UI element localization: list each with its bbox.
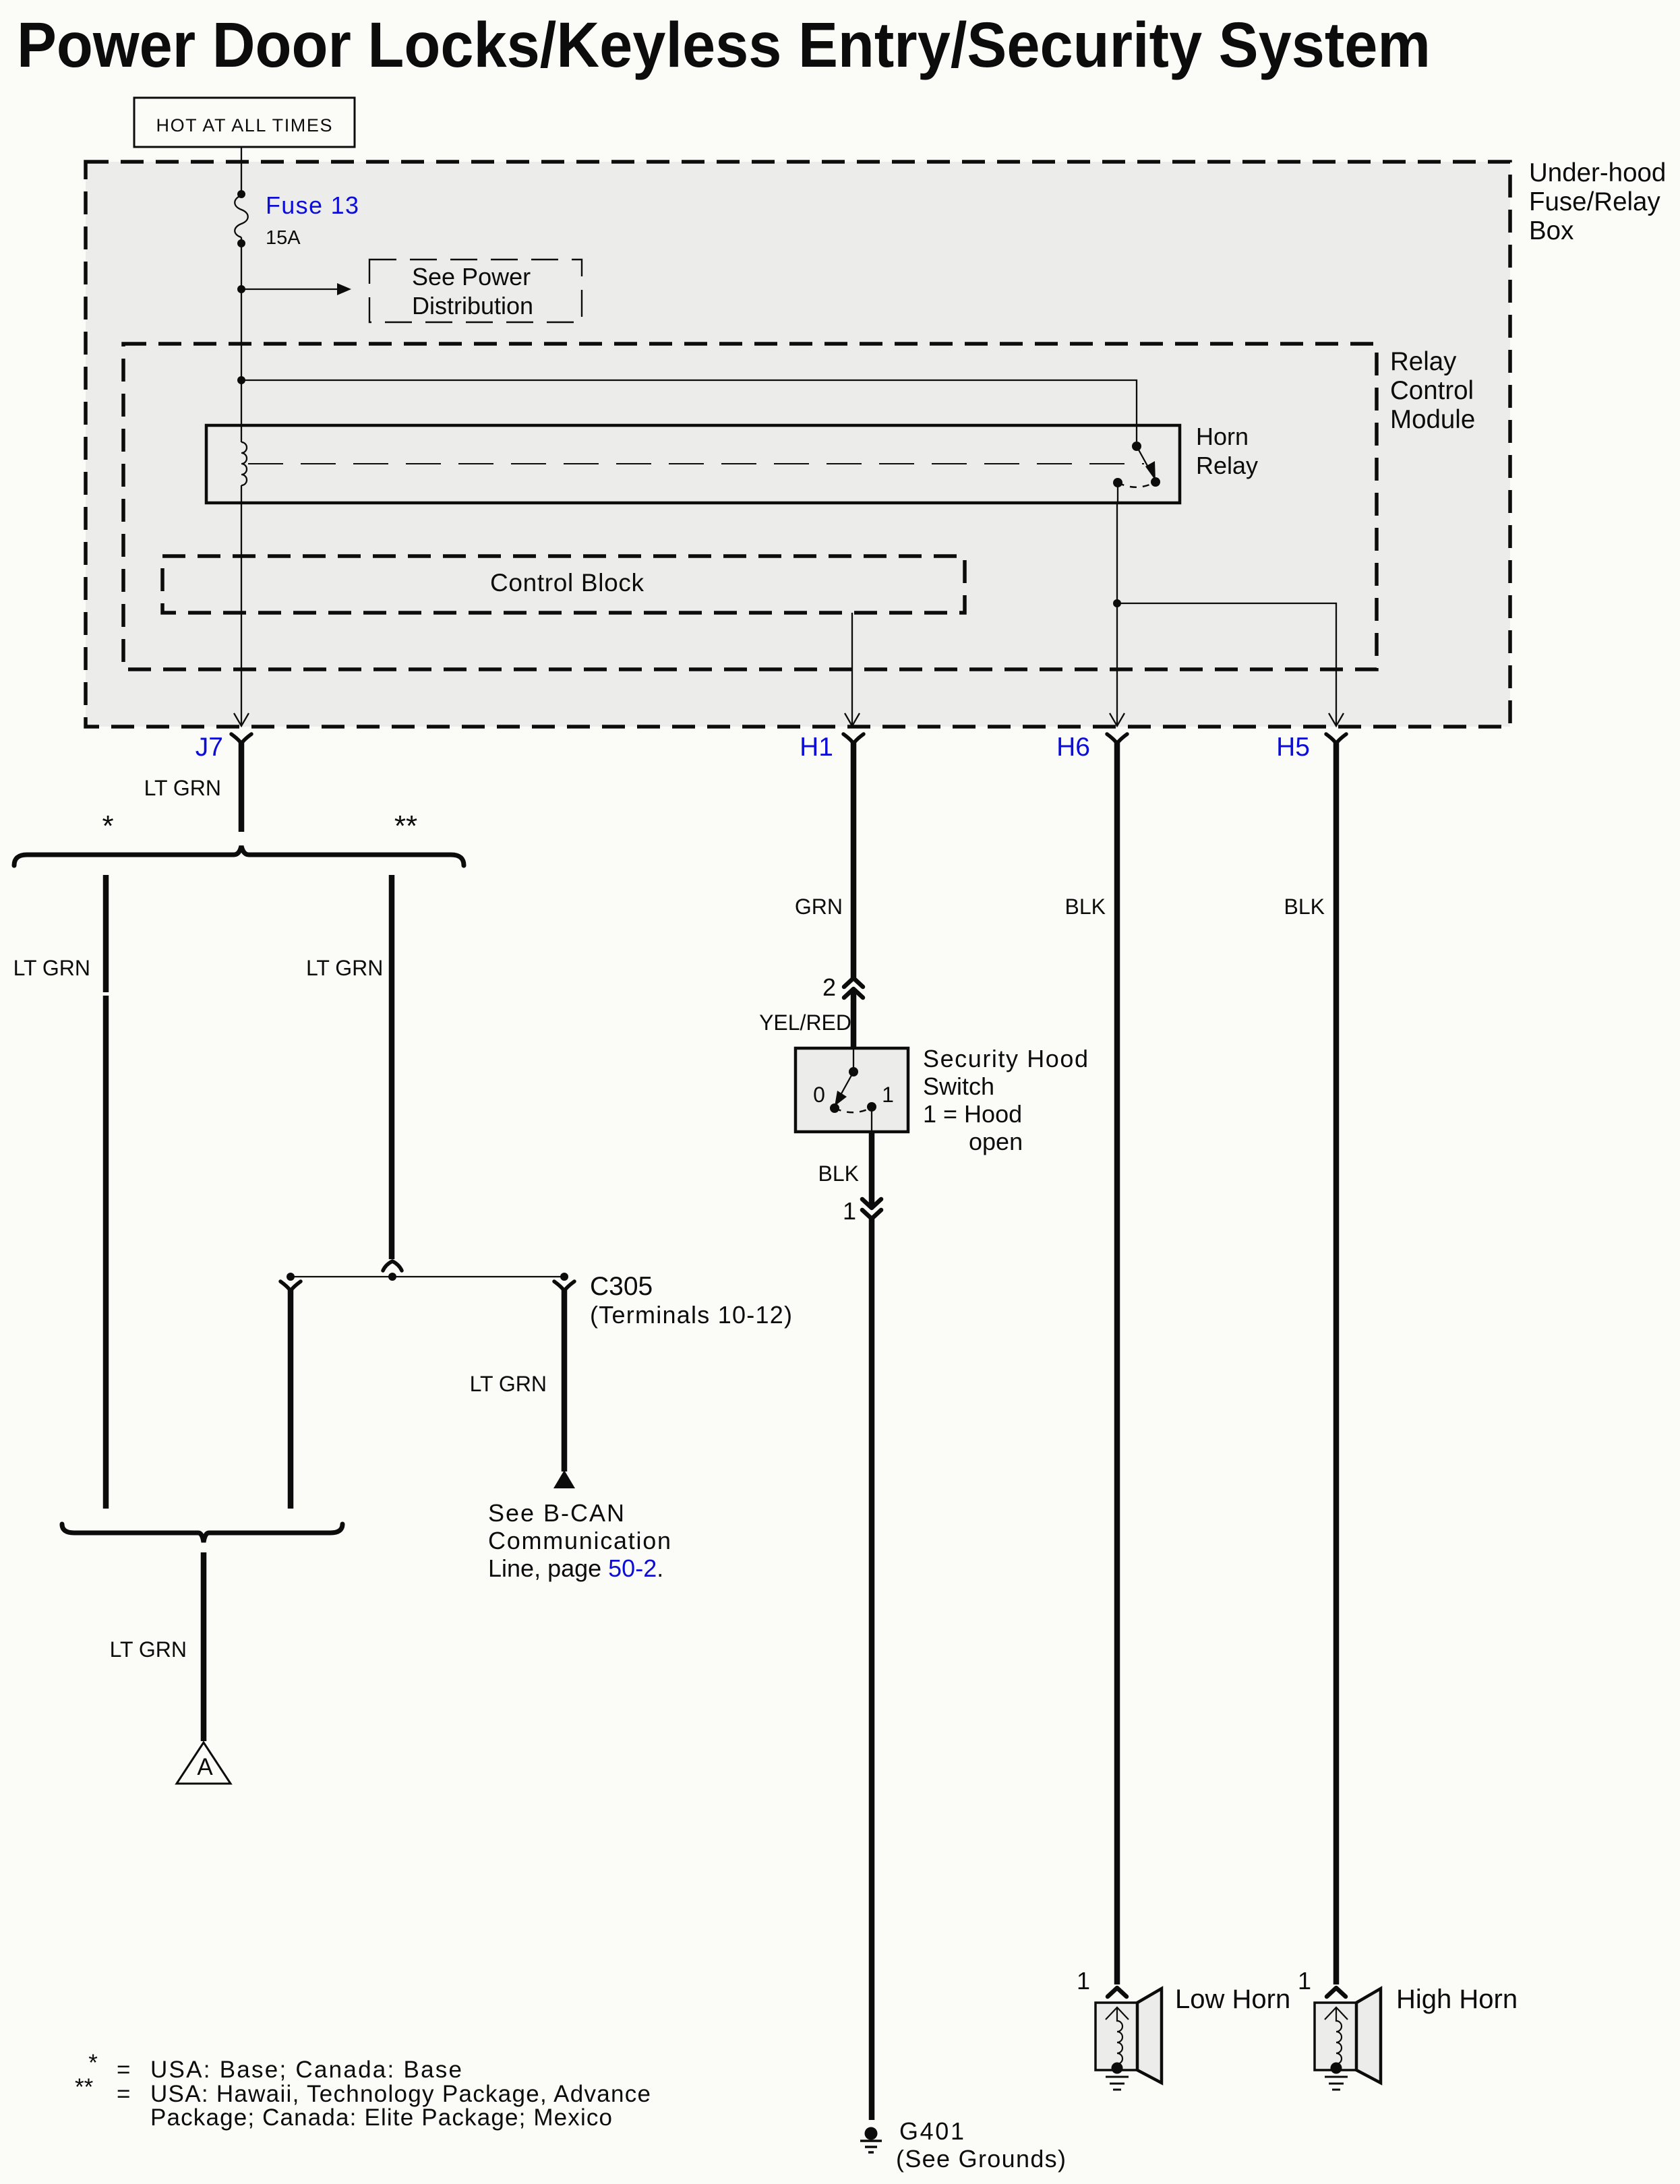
svg-text:**: ** <box>394 810 417 843</box>
svg-text:Relay: Relay <box>1196 452 1258 479</box>
svg-text:0: 0 <box>813 1083 825 1107</box>
svg-text:Line, page 50-2.: Line, page 50-2. <box>488 1554 663 1582</box>
svg-text:GRN: GRN <box>795 894 843 919</box>
svg-text:LT GRN: LT GRN <box>110 1637 187 1662</box>
svg-text:15A: 15A <box>266 227 301 249</box>
svg-text:Fuse 13: Fuse 13 <box>266 191 359 219</box>
svg-text:Horn: Horn <box>1196 423 1249 450</box>
svg-text:1: 1 <box>843 1197 856 1225</box>
svg-text:1: 1 <box>882 1083 894 1107</box>
svg-text:1: 1 <box>1298 1967 1311 1995</box>
svg-text:1 = Hood: 1 = Hood <box>923 1100 1022 1128</box>
svg-text:G401: G401 <box>899 2117 964 2145</box>
svg-text:YEL/RED: YEL/RED <box>759 1010 851 1035</box>
svg-text:Fuse/Relay: Fuse/Relay <box>1529 187 1660 216</box>
svg-text:BLK: BLK <box>818 1161 859 1186</box>
svg-text:Box: Box <box>1529 216 1573 245</box>
svg-text:Under-hood: Under-hood <box>1529 158 1666 187</box>
svg-text:2: 2 <box>822 973 836 1001</box>
svg-text:LT GRN: LT GRN <box>470 1372 547 1396</box>
svg-text:Relay: Relay <box>1390 347 1457 376</box>
svg-text:A: A <box>197 1754 213 1780</box>
svg-text:Security Hood: Security Hood <box>923 1045 1088 1072</box>
svg-text:**: ** <box>75 2074 94 2100</box>
svg-text:H1: H1 <box>800 733 833 762</box>
svg-text:H5: H5 <box>1276 733 1310 762</box>
svg-text:LT GRN: LT GRN <box>144 776 221 800</box>
svg-text:Power Door Locks/Keyless Entry: Power Door Locks/Keyless Entry/Security … <box>17 9 1431 81</box>
svg-text:(See Grounds): (See Grounds) <box>896 2145 1066 2173</box>
svg-text:=: = <box>117 2057 130 2083</box>
svg-text:C305: C305 <box>590 1272 653 1301</box>
svg-text:Control: Control <box>1390 376 1474 405</box>
svg-text:LT GRN: LT GRN <box>306 956 383 980</box>
svg-text:LT GRN: LT GRN <box>13 956 90 980</box>
svg-text:BLK: BLK <box>1284 894 1325 919</box>
svg-text:Package; Canada: Elite Package: Package; Canada: Elite Package; Mexico <box>150 2104 612 2131</box>
svg-text:=: = <box>117 2081 130 2107</box>
svg-text:*: * <box>102 810 113 843</box>
svg-text:Control Block: Control Block <box>490 569 644 597</box>
svg-text:Switch: Switch <box>923 1072 994 1100</box>
svg-text:*: * <box>88 2050 98 2076</box>
svg-text:H6: H6 <box>1056 733 1090 762</box>
svg-text:Distribution: Distribution <box>412 292 533 320</box>
svg-text:J7: J7 <box>196 733 223 762</box>
svg-text:Low Horn: Low Horn <box>1175 1984 1290 2014</box>
svg-text:Communication: Communication <box>488 1527 671 1554</box>
svg-text:BLK: BLK <box>1065 894 1106 919</box>
svg-text:Module: Module <box>1390 405 1475 434</box>
svg-text:open: open <box>969 1128 1023 1155</box>
svg-text:USA: Hawaii, Technology Packag: USA: Hawaii, Technology Package, Advance <box>150 2081 651 2107</box>
svg-text:High Horn: High Horn <box>1396 1984 1518 2014</box>
svg-text:See B-CAN: See B-CAN <box>488 1499 624 1527</box>
svg-text:(Terminals 10-12): (Terminals 10-12) <box>590 1301 792 1329</box>
svg-text:USA: Base; Canada: Base: USA: Base; Canada: Base <box>150 2057 462 2083</box>
svg-text:1: 1 <box>1077 1967 1090 1995</box>
svg-text:See Power: See Power <box>412 263 531 291</box>
